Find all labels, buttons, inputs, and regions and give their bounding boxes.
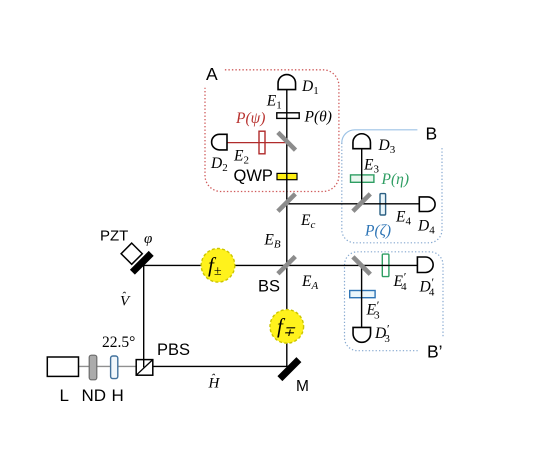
wire D3' vertical [361,265,363,327]
svg-text:D4: D4 [417,218,435,237]
svg-text:BS: BS [258,278,280,296]
svg-text:QWP: QWP [234,167,273,185]
wire D3 vertical [361,149,363,205]
polarizer E4' green [382,254,389,277]
mirror gray region B [353,194,370,211]
quarter-wave plate QWP [277,173,297,179]
ND filter [89,355,97,380]
svg-text:EB: EB [263,232,280,251]
svg-text:E3: E3 [363,157,379,176]
svg-text:φ: φ [144,231,152,247]
svg-text:M: M [296,378,309,395]
detector D3' [353,327,371,342]
detector D3 [353,134,371,149]
svg-text:E′4: E′4 [393,270,408,294]
polarizer P(theta) [277,113,299,119]
svg-text:H: H [112,386,124,405]
mirror M black [280,360,299,379]
region B border solid top [342,130,418,143]
detector D4 [419,197,435,212]
wire laser to PBS gray [79,365,137,367]
wire PBS to M [153,365,288,367]
region A dotted border [205,70,339,192]
wire PZT to BS to D4' horizontal [144,264,418,266]
svg-text:E′3: E′3 [366,298,381,322]
detector D4' [417,257,433,273]
wire Ec horizontal to D4 [287,203,419,205]
svg-text:D1: D1 [301,78,319,97]
polarizer P(zeta) blue [380,194,386,215]
svg-text:B: B [426,124,438,144]
PZT mirror black [132,253,151,272]
beam splitter BS gray [278,257,295,274]
svg-text:D2: D2 [210,155,228,174]
half-wave plate H [111,356,118,379]
detector D2 [212,134,227,150]
polarizer P(eta) green [351,175,374,182]
svg-text:P(ψ): P(ψ) [235,110,265,127]
svg-text:E2: E2 [233,148,249,167]
svg-text:P(η): P(η) [381,171,409,188]
PZT diamond [121,243,142,264]
mirror gray region B' [353,257,370,274]
region B' dotted border [345,252,444,351]
polarizer P(psi) red [259,131,265,154]
svg-text:ND: ND [82,386,107,405]
svg-text:EA: EA [301,273,318,292]
svg-text:E1: E1 [266,93,282,112]
PBS cube [136,360,153,376]
svg-text:PZT: PZT [100,228,128,245]
frequency shifter f-+ circle [270,310,304,344]
region B dotted border [342,143,442,243]
svg-text:E4: E4 [395,209,411,228]
svg-text:22.5°: 22.5° [102,334,135,351]
detector D1 [278,75,296,90]
mirror gray below P(theta) [278,132,296,150]
svg-text:PBS: PBS [157,341,190,359]
frequency shifter f+- circle [201,248,235,282]
svg-text:D′4: D′4 [419,275,435,299]
polarizer E3' blue [350,291,375,298]
svg-text:B’: B’ [427,342,443,362]
svg-text:D′3: D′3 [374,322,390,346]
svg-text:Ec: Ec [300,212,315,231]
laser L box [47,357,78,376]
mirror gray at Ec [278,194,295,211]
svg-text:L: L [60,386,69,405]
wire main vertical D1 to M [286,90,288,367]
svg-text:A: A [206,64,218,84]
wire PBS to PZT vertical [143,265,145,367]
svg-text:P(θ): P(θ) [304,109,332,126]
wire red beam to D2 [227,142,288,144]
svg-text:D3: D3 [378,137,396,156]
svg-text:P(ζ): P(ζ) [364,223,391,240]
